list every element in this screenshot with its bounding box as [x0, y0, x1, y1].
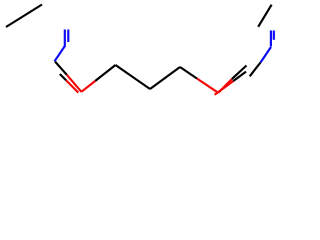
- molecule skeletal structure: [0, 0, 300, 118]
- chain bond V3-V4: [116, 65, 151, 89]
- C=C double bond right: inner stroke black part: [233, 72, 246, 82]
- terminal methyl bond top-left: [6, 5, 42, 28]
- imine C=N double bond right, long stroke: [270, 31, 272, 47]
- C-N bond right blue half: [261, 47, 272, 63]
- imine C=N double bond right, short stroke: [273, 31, 275, 40]
- N-C bond left (blue): [55, 46, 66, 62]
- C=C double bond right: main stroke black part: [232, 66, 247, 80]
- imine C=N double bond left, long stroke: [64, 30, 66, 46]
- chain bond V2-V3 red half: [81, 81, 95, 92]
- chain bond V5-V6 red half: [197, 79, 218, 93]
- chain bond V5-V6 black half: [180, 67, 197, 79]
- terminal methyl bond top-right: [258, 5, 271, 27]
- imine C=N double bond left, short stroke: [67, 30, 69, 43]
- chain bond V4-V5: [150, 67, 180, 89]
- C=C double bond left: inner stroke black part: [60, 74, 66, 80]
- C=C double bond right: main stroke red part: [218, 79, 232, 93]
- C=C double bond right: inner stroke red part: [215, 81, 234, 95]
- C=C double bond left: inner stroke red part: [66, 80, 78, 92]
- C-N bond right black half: [250, 63, 261, 77]
- chain bond V2-V3 black half: [95, 65, 115, 81]
- C=C double bond left: main stroke black part: [55, 62, 67, 75]
- C=C double bond left: main stroke red part: [67, 75, 82, 92]
